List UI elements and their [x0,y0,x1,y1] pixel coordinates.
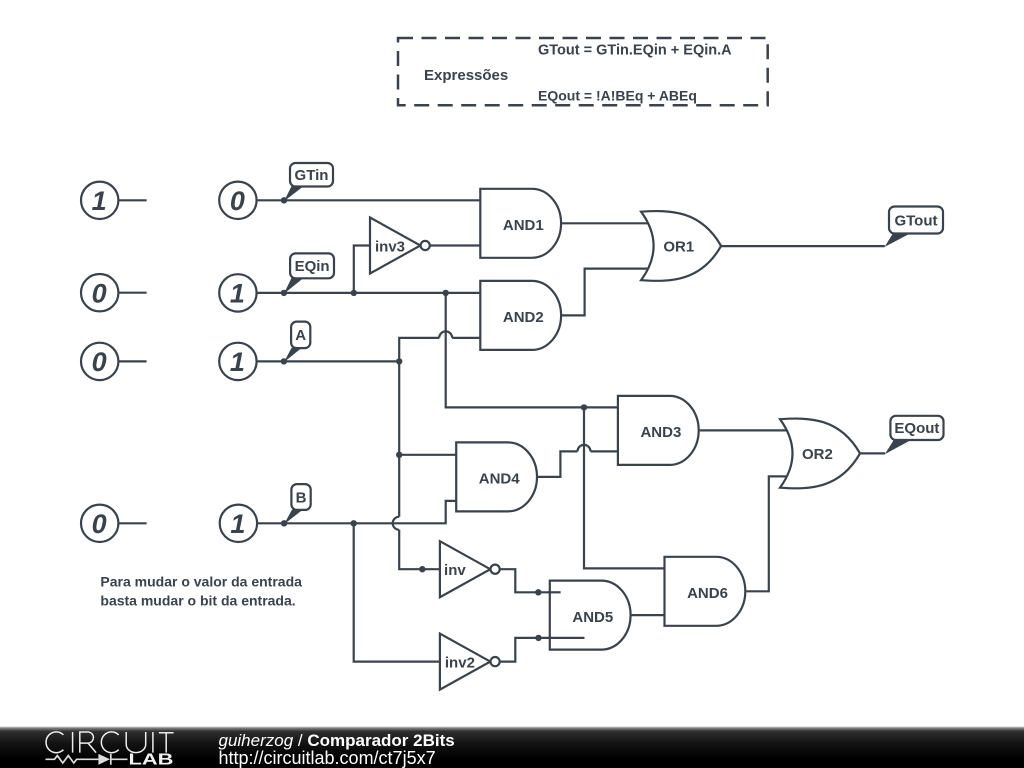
wire AND3 output to OR2 input [700,429,800,431]
AND gate U5 AND5 [550,581,631,650]
wire A vertical branch down to inv input with hop gap [399,361,441,569]
junction dot 8 [581,404,587,410]
svg-text:inv2: inv2 [445,654,475,671]
svg-text:0: 0 [92,347,107,377]
net flag GTout [885,207,943,247]
wire inv output toward AND5 [500,569,550,592]
svg-text:AND1: AND1 [503,217,544,234]
svg-text:EQout = !A!BEq + ABEq: EQout = !A!BEq + ABEq [538,88,697,104]
wire net EQin from node to AND2 input [257,292,484,294]
input node N B value 1 [220,505,257,542]
wire OR1 output to GTout [721,245,885,247]
svg-text:LAB: LAB [129,751,174,768]
junction dot 5 [281,358,287,364]
inverter U11 inv2 [440,634,500,690]
svg-text:1: 1 [230,347,245,377]
net flag GTin [284,163,333,201]
svg-text:OR2: OR2 [802,446,833,463]
junction dot 2 [281,290,287,296]
svg-text:EQout: EQout [894,420,939,437]
junction dot 1 [281,197,287,203]
junction dot 7 [396,452,402,458]
AND gate U3 AND3 [618,396,699,465]
input node S2 value 0 [81,274,118,311]
CircuitLab logo word CIRCUIT [46,732,174,753]
wire AND4 output to AND3 input with hop gap [538,451,622,477]
AND gate U4 AND4 [456,442,537,511]
svg-text:Para mudar o valor da entrada: Para mudar o valor da entrada [100,574,302,590]
wire net B from node to AND4 input [257,501,460,523]
wire stub from switch SW3 [118,360,146,362]
inverter U10 inv [440,541,500,597]
junction dot 10 [351,520,357,526]
wire AND5 output to AND6 input [631,614,668,616]
wire AND2 output to OR1 input [561,269,660,316]
svg-text:OR1: OR1 [663,239,694,256]
net flag EQin [284,253,334,293]
junction dot 9 [281,520,287,526]
wire inv3 output to AND1 input [430,244,484,246]
wire net GTin from node to AND1 input [257,199,484,201]
wire EQin branch up to inv3 input [354,246,371,293]
footer bar [0,727,1024,768]
svg-text:GTout: GTout [894,212,937,229]
wire AND6 output to OR2 input [746,476,800,591]
wire A branch up to AND2 input with hop gap [399,338,484,362]
net flag A [284,322,310,363]
wire inv2 output toward AND5 [500,638,550,662]
wire EQin branch down to AND3 input [446,293,622,408]
wire hop over AND6 branch [578,445,591,452]
svg-text:GTout = GTin.EQin + EQin.A: GTout = GTin.EQin + EQin.A [538,43,732,59]
AND gate U6 AND6 [665,557,746,626]
svg-text:1: 1 [92,186,107,216]
expressions dashed box [398,38,768,105]
junction dot 12 [535,589,541,595]
input node N EQin value 1 [219,274,256,311]
svg-text:1: 1 [230,509,245,539]
svg-text:AND4: AND4 [479,471,520,488]
svg-text:0: 0 [92,509,107,539]
wire OR2 output to EQout [860,452,885,454]
svg-text:1: 1 [230,279,245,309]
wire hop over net B [393,517,399,530]
svg-text:inv3: inv3 [375,238,405,255]
junction dot 6 [396,358,402,364]
inverter U9 inv3 [370,218,430,274]
wire stub from switch SW2 [118,292,146,294]
svg-text:Expressões: Expressões [424,67,508,84]
CircuitLab logo resistor and diode symbol [46,754,128,765]
net flag EQout [885,416,944,454]
wire stub from switch SW1 [118,199,146,201]
svg-text:AND5: AND5 [572,609,613,626]
wire inv2 output stub into AND5 [548,637,585,639]
svg-text:inv: inv [444,562,466,579]
svg-text:B: B [296,489,307,506]
junction dot 3 [351,290,357,296]
AND gate U1 AND1 [480,189,561,258]
AND gate U2 AND2 [480,281,561,350]
input node N A value 1 [219,343,256,380]
svg-text:0: 0 [92,278,107,308]
svg-text:GTin: GTin [295,167,329,184]
wire EQin branch down to AND6 input [584,407,668,568]
input node S3 value 0 [81,343,118,380]
junction dot 4 [443,290,449,296]
input node S4 value 0 [81,505,118,542]
input node S1 value 1 [81,182,118,219]
wire AND1 output to OR1 input [561,222,660,224]
svg-text:AND2: AND2 [503,309,544,326]
wire A junction to AND4 input [399,454,460,456]
svg-text:EQin: EQin [295,258,330,275]
wire inv output stub into AND5 [548,591,561,593]
svg-text:AND3: AND3 [640,424,681,441]
wire stub from switch SW4 [118,522,146,524]
wire hop over EQin-AND3 branch [439,331,452,338]
svg-text:A: A [295,327,306,344]
OR gate U8 OR2 [780,419,860,489]
wire net A from node to junction [257,360,400,362]
junction dot 13 [535,635,541,641]
svg-text:AND6: AND6 [687,585,728,602]
svg-text:http://circuitlab.com/ct7j5x7: http://circuitlab.com/ct7j5x7 [219,748,436,768]
svg-text:0: 0 [230,186,245,216]
junction dot 11 [419,566,425,572]
OR gate U7 OR1 [641,211,721,281]
input node N GTin value 0 [219,182,256,219]
svg-text:basta mudar o bit da entrada.: basta mudar o bit da entrada. [100,593,295,609]
wire B branch down to inv2 input [354,523,441,661]
net flag B [284,484,311,524]
